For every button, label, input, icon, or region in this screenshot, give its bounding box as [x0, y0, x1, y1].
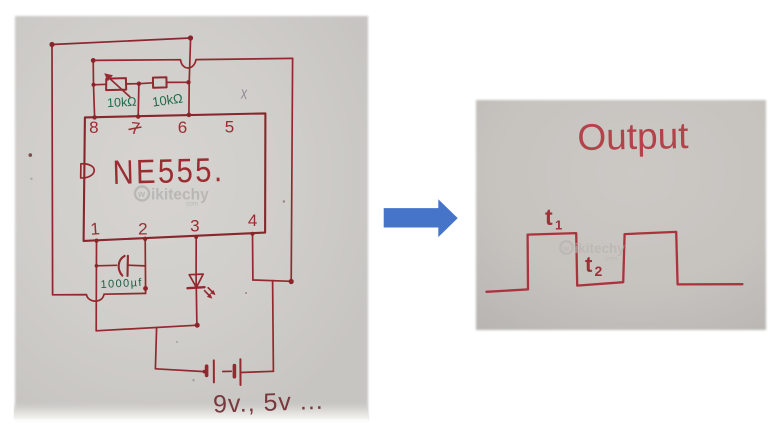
- watermark right Wikitechy: [560, 241, 625, 263]
- blue arrow: [384, 199, 458, 237]
- wire pin4 horizontal: [253, 280, 291, 281]
- wire VCC right vertical: [291, 58, 292, 281]
- battery BT1 cell1 short plate: [205, 366, 209, 375]
- LED D1 lower lead: [195, 288, 198, 325]
- LED D1 arrowhead 1: [207, 293, 212, 298]
- wire pin2 vertical (cap right / bottom wire to IC): [144, 239, 146, 294]
- battery BT1 cell1 long plate: [213, 360, 215, 382]
- svg-text:ikitechy: ikitechy: [575, 241, 626, 256]
- wire VCC rail with hop over pin6 line: [93, 58, 292, 68]
- svg-text:ikitechy: ikitechy: [151, 187, 209, 204]
- svg-text:w: w: [562, 244, 570, 253]
- junction dots: [49, 35, 293, 373]
- LED D1 triangle: [189, 274, 203, 287]
- node label t2: [585, 252, 603, 279]
- battery BT1 middle lead: [223, 370, 232, 372]
- battery BT1 cell2 short plate: [233, 366, 237, 377]
- wire R2 right lead: [167, 81, 189, 83]
- LED D1 arrowhead 2: [210, 290, 215, 295]
- paper specks: [29, 153, 33, 157]
- wire pin7 riser: [137, 84, 140, 117]
- LED D1 light arrow 2: [208, 288, 213, 293]
- wire ground bottom: [96, 325, 197, 331]
- IC U1 D notch: [81, 164, 95, 178]
- wire battery left lead: [155, 369, 204, 372]
- pin number 7: [129, 119, 142, 139]
- svg-text:10kΩ: 10kΩ: [107, 95, 137, 111]
- capacitor C1 leads: [96, 264, 145, 267]
- wire pin4 riser: [252, 234, 254, 280]
- potentiometer R1 box: [106, 78, 126, 90]
- svg-text:2: 2: [138, 220, 147, 239]
- left photo panel: [15, 16, 368, 420]
- IC U1 NE555 body: [84, 113, 266, 240]
- svg-text:4: 4: [248, 211, 257, 230]
- wire bottom-left with hop over pin1 riser: [53, 293, 146, 301]
- svg-text:1: 1: [90, 219, 101, 239]
- LED D1 light arrow 1: [205, 291, 211, 297]
- capacitor C1 straight plate: [126, 256, 129, 276]
- potentiometer R1 arrowhead: [104, 73, 113, 81]
- wire pot right lead: [126, 83, 139, 85]
- svg-text:5: 5: [225, 118, 234, 137]
- svg-text:8: 8: [89, 118, 98, 137]
- wire left side vertical: [51, 45, 54, 295]
- right photo panel: [476, 100, 766, 330]
- svg-text:1000µf: 1000µf: [100, 277, 143, 291]
- node label t1: [545, 204, 562, 233]
- wire lead to R2: [139, 82, 153, 85]
- waveform trace: [487, 232, 743, 292]
- svg-text:6: 6: [178, 118, 187, 137]
- LED D1 center lead: [195, 274, 197, 288]
- wire pin1 riser: [95, 241, 97, 331]
- LED D1 riser from pin3: [195, 237, 197, 275]
- wire battery drop: [155, 328, 156, 369]
- svg-text:com: com: [186, 201, 198, 208]
- svg-text:9v., 5v ...: 9v., 5v ...: [213, 387, 324, 419]
- wire pin8 column: [93, 60, 94, 117]
- LED D1 cathode bar: [188, 287, 205, 288]
- svg-text:w: w: [137, 189, 146, 199]
- wire battery right lead: [240, 371, 273, 372]
- wire top (pin6 node to left rail): [52, 38, 191, 45]
- svg-text:Output: Output: [577, 115, 689, 158]
- svg-text:com: com: [605, 256, 617, 263]
- resistor R2 box: [153, 77, 167, 88]
- wire battery right vertical: [272, 281, 275, 372]
- wire pin6 vertical: [189, 38, 191, 115]
- svg-text:1: 1: [555, 218, 562, 233]
- watermark left Wikitechy: [135, 187, 209, 208]
- capacitor C1 curved plate: [119, 256, 125, 276]
- wire resistor row left lead: [94, 83, 107, 86]
- left panel bottom fade: [14, 402, 368, 421]
- svg-text:3: 3: [190, 217, 199, 236]
- svg-text:t: t: [545, 204, 553, 230]
- battery BT1 cell2 long plate: [239, 359, 241, 385]
- svg-text:NE555.: NE555.: [112, 150, 225, 192]
- potentiometer R1 arrow shaft: [108, 77, 130, 97]
- svg-text:2: 2: [595, 263, 603, 279]
